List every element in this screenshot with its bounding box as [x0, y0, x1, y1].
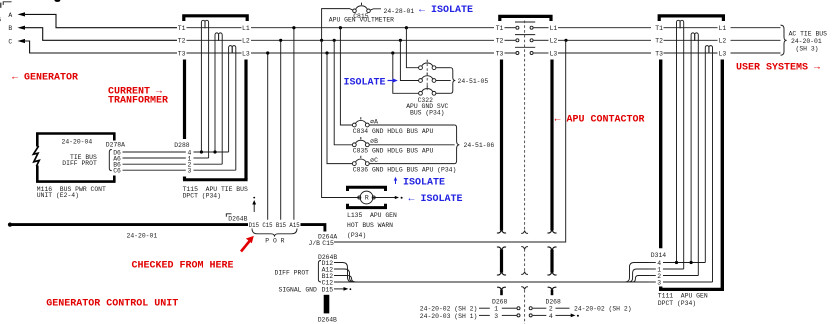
svg-text:T3: T3	[655, 50, 663, 57]
contact row phase C	[505, 47, 549, 54]
junction dot phase A at C834 tap	[339, 26, 342, 29]
wire phase B middle span	[251, 39, 494, 41]
contactor T115 right body bar	[244, 60, 247, 180]
T cap above right D268	[548, 287, 557, 295]
dashed link end curl	[521, 231, 528, 234]
current transformer CT1 phase A coil	[201, 20, 208, 28]
svg-text:A: A	[8, 12, 12, 19]
current transformer CT3 phase C coil	[229, 46, 236, 54]
APU contactor left bar	[500, 60, 503, 231]
junction dot phase B at C815/L135 tap	[320, 39, 323, 42]
svg-text:L1: L1	[550, 25, 558, 32]
svg-text:24-20-03 (SH 1): 24-20-03 (SH 1)	[420, 313, 478, 320]
svg-text:C6: C6	[113, 168, 121, 175]
circuit breaker C836	[352, 156, 454, 166]
svg-text:(SH 3): (SH 3)	[796, 46, 819, 53]
wire C322 breaker 3 feed	[393, 53, 419, 93]
svg-text:T1: T1	[655, 25, 663, 32]
connector D288 pin 1	[123, 155, 209, 162]
GCU bus left end dot	[8, 223, 12, 227]
node C generator phase C arrow	[8, 38, 177, 53]
red arrow checked from here	[241, 236, 254, 252]
blue arrow to C322	[388, 78, 398, 82]
bracket for TIE BUS DIFF PROT pins	[109, 150, 112, 171]
wire phase A middle span	[251, 27, 494, 29]
svg-text:DIFF PROT: DIFF PROT	[62, 160, 97, 167]
wire phase C through contactor1	[187, 52, 242, 54]
svg-text:L3: L3	[242, 50, 250, 57]
wire C834 feed	[340, 28, 352, 125]
node B generator phase B arrow	[8, 25, 177, 40]
GCU bus continuation thick stub	[324, 295, 330, 314]
svg-text:D268: D268	[492, 299, 508, 306]
D268 row1 pin 1	[479, 307, 517, 309]
wire L135 feed from phase B tap vertical	[322, 40, 360, 197]
GCU bus 24-20-01 thick bar	[9, 223, 248, 226]
wire phase A through contactor3	[664, 27, 718, 29]
lower dashed link segment	[521, 247, 528, 275]
brace P O R under pins	[252, 229, 297, 237]
svg-text:L3: L3	[719, 50, 727, 57]
svg-text:T3: T3	[178, 50, 186, 57]
connector D288 pin 4	[123, 149, 229, 156]
wire phase B tap down to B15	[280, 40, 282, 220]
reference up arrow above D15	[252, 197, 256, 212]
junction dot phase C to C15	[266, 51, 269, 54]
contactor T111 left body bar corner	[659, 287, 662, 291]
svg-text:D314: D314	[651, 252, 667, 259]
svg-text:24-20-02 (SH 2): 24-20-02 (SH 2)	[574, 306, 632, 313]
T cap above left D268	[497, 287, 506, 295]
svg-text:24-20-02 (SH 2): 24-20-02 (SH 2)	[420, 306, 478, 313]
wire CT5 leg to pin2	[697, 41, 699, 276]
svg-text:T1: T1	[178, 25, 186, 32]
wire C835 feed	[334, 40, 352, 145]
top edge junction stub	[55, 0, 61, 2]
wire phase B through contactor3	[664, 39, 718, 41]
svg-text:L2: L2	[719, 38, 727, 45]
brace AC TIE BUS	[781, 25, 787, 55]
svg-text:← APU CONTACTOR: ← APU CONTACTOR	[555, 114, 645, 125]
junction dot CT1-pin4	[200, 150, 203, 153]
junction dot phase A at C322 tap	[405, 26, 408, 29]
connector D314 pin 4	[649, 260, 706, 267]
svg-text:T111 APU GEN: T111 APU GEN	[658, 292, 708, 299]
svg-text:D15 C15 B15 A15: D15 C15 B15 A15	[249, 222, 300, 229]
svg-text:D278A: D278A	[106, 141, 125, 148]
svg-text:ISOLATE: ISOLATE	[403, 177, 445, 188]
svg-text:1: 1	[494, 306, 498, 313]
svg-text:24-20-04: 24-20-04	[62, 138, 93, 145]
wire C836 feed	[327, 53, 352, 164]
svg-text:T3: T3	[496, 50, 504, 57]
svg-text:T1: T1	[496, 25, 504, 32]
APU contactor right bar	[550, 60, 553, 231]
svg-text:24-51-05: 24-51-05	[458, 78, 489, 85]
svg-text:← ISOLATE: ← ISOLATE	[409, 194, 463, 205]
connector D288 pin 3	[123, 168, 236, 175]
D268 row2 pin 3	[479, 314, 517, 316]
svg-text:T2: T2	[496, 38, 504, 45]
connector D288 pin 2	[123, 162, 223, 169]
junction dot phase C at C322 tap	[391, 51, 394, 54]
bracket 24-51-05	[451, 68, 456, 94]
wire B12 to trunk	[334, 276, 356, 283]
connector D314 pin 2	[649, 273, 699, 280]
connector D314 pin 3	[649, 279, 713, 286]
svg-text:L2: L2	[242, 38, 250, 45]
wire phase B span contactor2 to contactor3	[558, 39, 651, 41]
svg-text:24-20-01: 24-20-01	[791, 38, 822, 45]
wire CT5 leg to pin4	[690, 41, 692, 263]
svg-text:C834 GND HDLG BUS APU: C834 GND HDLG BUS APU	[353, 128, 434, 135]
svg-text:∅A: ∅A	[370, 118, 378, 125]
APU contactor top bracket	[500, 16, 551, 21]
svg-text:BUS (P34): BUS (P34)	[410, 109, 445, 116]
svg-text:5: 5	[0, 17, 1, 24]
wire phase B through contactor1	[187, 39, 242, 41]
svg-text:∅C: ∅C	[370, 157, 378, 164]
junction dot phase B coil tap	[564, 39, 567, 42]
wire C815 feed from phase B tap	[322, 9, 353, 41]
svg-text:DPCT (P34): DPCT (P34)	[183, 192, 221, 199]
svg-text:C836 GND HDLG BUS APU (P34): C836 GND HDLG BUS APU (P34)	[353, 167, 457, 174]
GCU bus continuation thick bar right of pins	[301, 225, 325, 232]
wire phase B to AC tie bus	[731, 39, 781, 41]
svg-text:L1: L1	[719, 25, 727, 32]
svg-text:D264B: D264B	[318, 316, 337, 323]
wire phase C middle span	[251, 52, 494, 54]
D268 row1 pin 2	[533, 307, 570, 309]
wire L135 output with arrow	[373, 196, 403, 199]
junction dot CT5-pin4	[690, 261, 693, 264]
contactor T111 right body bar	[721, 60, 724, 291]
wire A12 to trunk	[334, 269, 355, 282]
wire phase C to AC tie bus	[731, 52, 781, 54]
D268 row2 pin 4 with arrow	[533, 314, 579, 318]
wire C12 to trunk	[334, 281, 356, 283]
svg-text:CHECKED FROM HERE: CHECKED FROM HERE	[132, 261, 234, 272]
bracket 24-51-06	[455, 125, 460, 164]
contactor T111 bottom bar	[659, 288, 724, 291]
svg-text:(P34): (P34)	[347, 232, 366, 239]
svg-text:APU GEN VOLTMETER: APU GEN VOLTMETER	[329, 17, 394, 24]
current transformer CT2 phase B coil	[215, 33, 222, 41]
box M116 bus power control unit	[36, 133, 116, 183]
lower feeder bar left with curls	[497, 247, 506, 275]
svg-text:D288: D288	[174, 142, 190, 149]
contact row phase A	[505, 22, 549, 29]
wire CT3 secondary leg to pin4	[228, 53, 230, 152]
svg-text:L135 APU GEN: L135 APU GEN	[347, 212, 397, 219]
wire phase C span contactor2 to contactor3	[558, 52, 651, 54]
wire phase C through contactor3	[664, 52, 718, 54]
svg-text:SIGNAL GND: SIGNAL GND	[279, 286, 318, 293]
svg-text:HOT BUS WARN: HOT BUS WARN	[347, 222, 393, 229]
contactor T115 top bracket	[184, 16, 247, 21]
svg-text:T2: T2	[178, 38, 186, 45]
current transformer CT4 phase A coil	[677, 20, 684, 28]
current transformer CT5 phase B coil	[691, 33, 698, 41]
wire C322 breaker 1 feed	[406, 28, 418, 68]
wire CT2 secondary leg to pin2	[221, 41, 223, 165]
junction dot phase C at C836 tap	[325, 51, 328, 54]
svg-text:GENERATOR CONTROL UNIT: GENERATOR CONTROL UNIT	[46, 298, 178, 309]
wire phase C tap down to C15	[267, 53, 269, 220]
svg-text:R: R	[365, 194, 369, 201]
D268 row2 contacts	[517, 314, 520, 317]
svg-text:L2: L2	[550, 38, 558, 45]
svg-text:UNIT (E2-4): UNIT (E2-4)	[37, 192, 79, 199]
bracket for D12-C12 pins	[318, 261, 321, 283]
wire CT2 secondary leg to pin4	[214, 41, 216, 153]
circuit breaker C322 pole C	[419, 85, 451, 95]
svg-text:J/B: J/B	[309, 240, 321, 247]
svg-text:ISOLATE: ISOLATE	[344, 78, 386, 89]
svg-text:∅B: ∅B	[370, 138, 378, 145]
svg-text:DPCT (P34): DPCT (P34)	[658, 300, 696, 307]
wire CT3 secondary leg to pin3	[235, 53, 237, 170]
connector D264B pin D15 with arrow	[322, 286, 352, 293]
circuit breaker C322 pole A	[419, 60, 451, 70]
wire CT6 leg to pin4	[704, 53, 706, 262]
wire phase A to AC tie bus	[731, 27, 781, 29]
contactor T115 left body bar upper	[183, 60, 186, 140]
sheet corner mark	[1, 2, 12, 8]
svg-text:T2: T2	[655, 38, 663, 45]
current transformer CT6 phase C coil	[705, 46, 712, 54]
wire contactor coil loop from D264A C15	[334, 40, 566, 242]
junction dot CT2-pin4	[213, 150, 216, 153]
contactor T115 bottom bar	[183, 178, 248, 181]
svg-text:TRANFORMER: TRANFORMER	[108, 96, 168, 107]
svg-text:4: 4	[549, 313, 553, 320]
wire phase A tap down to A15	[293, 28, 295, 220]
APU contactor right bar end curls	[547, 230, 556, 234]
svg-text:← ISOLATE: ← ISOLATE	[419, 5, 473, 16]
svg-text:24-51-06: 24-51-06	[464, 142, 495, 149]
svg-text:3: 3	[657, 279, 661, 286]
svg-text:C835 GND HDLG BUS APU: C835 GND HDLG BUS APU	[353, 148, 434, 155]
svg-text:B: B	[8, 25, 12, 32]
dashed actuator link	[524, 21, 526, 232]
circuit breaker C835	[352, 137, 454, 147]
connector D264B hook mark	[226, 214, 231, 217]
junction dot phase B at C835 tap	[333, 39, 336, 42]
label ISOLATE with up arrow (blue)	[394, 177, 397, 184]
svg-text:2: 2	[549, 306, 553, 313]
dashed link continuation to sheet edge	[521, 287, 528, 324]
svg-text:L1: L1	[242, 25, 250, 32]
svg-text:USER SYSTEMS →: USER SYSTEMS →	[736, 63, 820, 74]
D268 row1 contacts	[517, 307, 520, 310]
lower feeder bar right with curls	[547, 247, 556, 275]
APU contactor left bar end curls	[497, 230, 506, 234]
wire CT6 leg to pin3	[712, 53, 714, 282]
node A generator phase A arrow	[8, 12, 177, 28]
wire CT1 secondary leg to pin1	[208, 28, 210, 158]
lightning break symbol on M116 left border	[33, 146, 39, 166]
svg-text:C15: C15	[322, 240, 334, 247]
junction dot CT4-pin4	[675, 261, 678, 264]
lamp L135 bottom bracket	[348, 204, 386, 208]
svg-text:AC TIE BUS: AC TIE BUS	[789, 31, 828, 38]
svg-text:D264B: D264B	[228, 216, 247, 223]
svg-text:L3: L3	[550, 50, 558, 57]
wire C322 breaker 2 feed	[400, 40, 418, 80]
lamp L135 top bracket	[348, 187, 386, 191]
svg-text:D268: D268	[546, 299, 562, 306]
contactor T111 top bracket	[659, 16, 723, 21]
svg-text:← GENERATOR: ← GENERATOR	[12, 73, 78, 84]
contact row phase B	[505, 35, 549, 42]
lamp L135	[358, 191, 375, 204]
wire CT1 secondary leg to pin4	[200, 28, 202, 152]
svg-text:3: 3	[188, 168, 192, 175]
junction dot phase B at C322 tap	[399, 39, 402, 42]
junction dot phase B to B15	[279, 39, 282, 42]
contactor T115 left body bar lower corner	[183, 177, 186, 180]
svg-text:DIFF PROT: DIFF PROT	[275, 270, 310, 277]
wire CT4 leg to pin4	[676, 28, 678, 263]
wire phase A through contactor1	[187, 27, 242, 29]
wire CT4 leg to pin1	[683, 28, 685, 269]
connector D314 pin 1	[649, 266, 684, 273]
dashed gang link C322	[426, 64, 428, 91]
svg-text:24-20-01: 24-20-01	[127, 233, 158, 240]
svg-text:P O R: P O R	[265, 237, 284, 244]
svg-text:3: 3	[494, 313, 498, 320]
svg-text:24-28-01: 24-28-01	[384, 8, 415, 15]
svg-text:D15: D15	[322, 286, 334, 293]
junction dot phase A to A15	[292, 26, 295, 29]
wire phase A span contactor2 to contactor3	[558, 27, 651, 29]
trunk split curves to D314 pins	[356, 263, 649, 283]
circuit breaker C322 pole B	[419, 73, 451, 83]
circuit breaker C834	[352, 117, 454, 127]
contactor T111 left body bar upper	[659, 60, 662, 249]
wire D12 to trunk	[334, 263, 353, 283]
circuit breaker C815	[353, 3, 381, 13]
svg-text:C: C	[8, 38, 12, 45]
